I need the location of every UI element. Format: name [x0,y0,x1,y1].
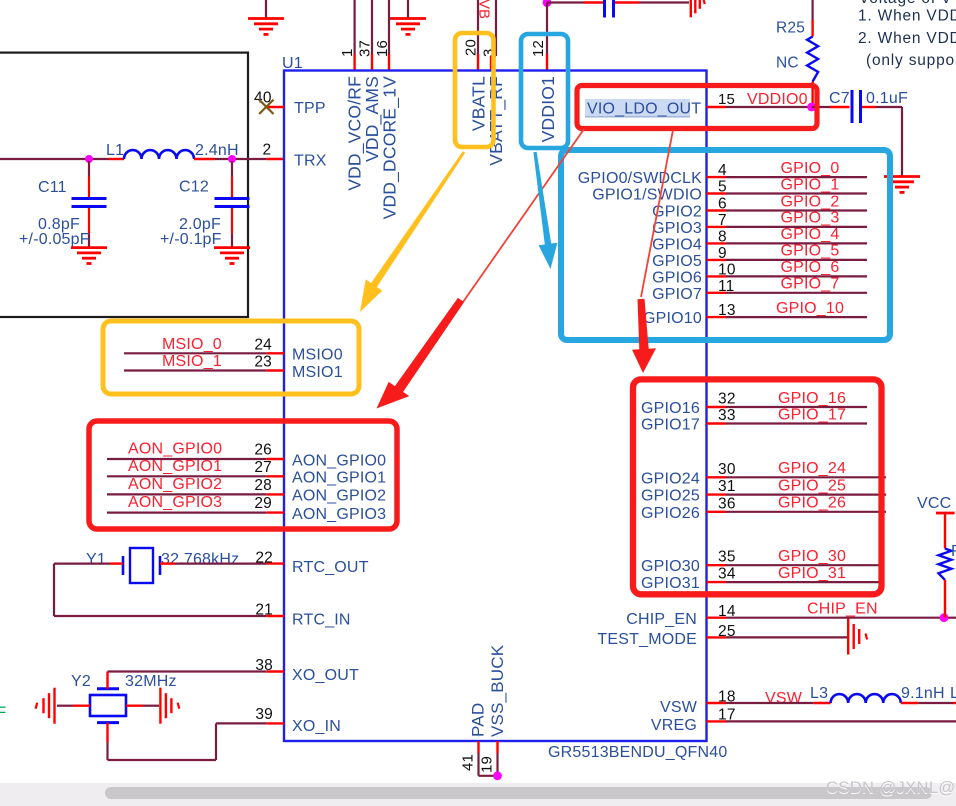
wire net MSIO_1 [124,369,284,371]
net label GPIO_25 [778,477,846,494]
wire net GPIO_6 [707,275,868,277]
pin name GPIO2 [652,204,702,221]
pin 39 number [255,706,273,723]
pin name VSS_BUCK [488,644,507,737]
net name VIO_LDO_OUT [587,101,701,118]
junction node TRX/C11 [85,155,93,163]
leader line red left [463,129,584,302]
pin name GPIO31 [641,575,700,592]
svg-text:VCC: VCC [917,495,951,512]
op-amp U1 chip body GR5513BENDU_QFN40 [284,71,707,742]
svg-text:GR5513BENDU_QFN40: GR5513BENDU_QFN40 [548,744,727,761]
ground right of TEST_MODE [848,619,867,655]
net label MSIO_0 [162,336,222,353]
svg-text:35: 35 [718,549,736,566]
svg-text:GPIO6: GPIO6 [652,269,702,286]
refdes U1 [282,55,303,72]
svg-text:MSIO_1: MSIO_1 [162,353,222,370]
net label GPIO_3 [780,210,839,227]
annotation blue box pin 12 VDDIO1 [521,34,568,148]
svg-text:GPIO_2: GPIO_2 [780,193,839,210]
part name GR5513BENDU_QFN40 [548,744,727,761]
net label AON_GPIO0 [128,441,222,458]
pin name GPIO30 [641,558,700,575]
pin 15 number [718,91,735,108]
net label GPIO_2 [780,193,839,210]
wire net MSIO_0 [124,352,284,354]
svg-text:(only supported: (only supported [866,52,956,69]
scrollbar thumb [105,787,932,799]
svg-text:9.1nH: 9.1nH [901,685,945,702]
svg-text:PAD: PAD [469,703,488,737]
pin 13 number [718,302,736,319]
pin 40 TPP [254,90,326,118]
wire R to CHIP_EN node [944,580,946,618]
note line 2 [858,30,956,47]
svg-text:AON_GPIO0: AON_GPIO0 [292,452,386,469]
net label GPIO_10 [776,300,844,317]
svg-text:GPIO_7: GPIO_7 [780,276,839,293]
pin 3 number [481,48,498,57]
svg-text:30: 30 [718,461,736,478]
svg-text:AON_GPIO1: AON_GPIO1 [128,458,222,475]
svg-text:8: 8 [718,228,727,245]
pin 25 number [718,623,736,640]
svg-text:TRX: TRX [294,153,327,170]
pin 2 TRX [263,142,327,170]
wire pin 19 stub [496,741,498,776]
svg-text:GPIO_1: GPIO_1 [780,176,839,193]
pin name GPIO10 [643,310,702,327]
label NC of R25 [776,55,799,72]
pin name VDD_AMS [362,76,383,162]
svg-text:1. When VDD supply: 1. When VDD supply [858,8,956,25]
wire net AON_GPIO0 [107,458,284,460]
wire net AON_GPIO2 [107,493,284,495]
svg-text:VIO_LDO_OUT: VIO_LDO_OUT [587,101,701,118]
svg-text:L3: L3 [810,685,828,702]
annotation red box VIO_LDO_OUT [577,86,817,129]
net label GPIO_30 [778,548,846,565]
svg-text:GPIO4: GPIO4 [652,236,702,253]
svg-text:Y1: Y1 [86,551,106,568]
svg-text:AON_GPIO3: AON_GPIO3 [292,506,386,523]
wire net GPIO_1 [707,192,868,194]
pin 22 number [255,550,273,567]
svg-text:11: 11 [718,278,735,295]
pin 12 number [530,40,547,57]
svg-text:VDDIO1: VDDIO1 [538,76,558,142]
pin 7 number [718,212,727,229]
wire to pin 16 VDD_DCORE_1V [388,0,390,71]
wire net VREG [707,720,956,722]
svg-text:TEST_MODE: TEST_MODE [597,631,697,648]
pin name MSIO0 [292,347,343,364]
pin 36 number [718,495,736,512]
svg-text:0.1uF: 0.1uF [866,90,908,107]
pin 31 number [718,478,736,495]
annotation red arrow to AON box [377,298,465,409]
pin 27 number [254,459,272,476]
pin name GPIO0/SWDCLK [578,170,702,187]
pin 4 number [718,162,727,179]
wire pin 15 to node [707,106,812,108]
pin 37 number [357,40,374,57]
junction node TRX/C12 [228,155,236,163]
leader line red right [641,130,673,297]
wire net GPIO_3 [707,226,868,228]
net label GPIO_0 [780,160,839,177]
wire net AON_GPIO1 [107,475,284,477]
svg-text:10: 10 [718,261,736,278]
wire Y2 top to pin 38 [108,672,285,689]
pin name AON_GPIO3 [292,506,386,523]
svg-text:12: 12 [530,40,547,57]
wire net GPIO_7 [707,292,868,294]
svg-text:36: 36 [718,495,736,512]
pin 34 number [718,566,736,583]
wire pin 41 stub [477,741,479,776]
svg-text:GPIO_17: GPIO_17 [778,406,846,423]
svg-text:15: 15 [718,91,735,108]
RF filter block border [0,53,248,317]
svg-text:TPP: TPP [294,100,326,117]
svg-text:AON_GPIO1: AON_GPIO1 [292,470,386,487]
value 32MHz of Y2 [125,673,177,690]
svg-text:GPIO16: GPIO16 [641,400,700,417]
svg-text:GPIO30: GPIO30 [641,558,700,575]
wire cap to ground top-right [615,1,689,3]
svg-text:GPIO26: GPIO26 [641,505,700,522]
wire junction to pin 12 VDDIO1 [546,3,548,71]
svg-text:NC: NC [776,55,799,72]
svg-text:32: 32 [718,391,736,408]
pin name RTC_IN [292,612,351,629]
svg-text:38: 38 [255,657,273,674]
pin 32 number [718,391,736,408]
svg-text:AON_GPIO0: AON_GPIO0 [128,441,222,458]
pin 10 number [718,261,736,278]
pin name GPIO4 [652,236,702,253]
svg-text:GPIO_0: GPIO_0 [780,160,839,177]
ground top-middle [390,0,426,34]
svg-text:31: 31 [718,478,736,495]
pin name GPIO3 [652,220,702,237]
wire L3 to right edge [901,702,956,704]
inductor L1 [106,142,194,159]
svg-text:28: 28 [254,477,272,494]
capacitor C11 [38,161,107,247]
pin 1 number [339,48,356,57]
svg-text:RTC_IN: RTC_IN [292,612,351,629]
svg-text:2. When VDD supply: 2. When VDD supply [858,30,956,47]
wire net GPIO_26 [707,511,887,513]
wire net GPIO_17 [707,422,868,424]
wire to pin 20 VBATL [477,0,479,71]
svg-text:GPIO10: GPIO10 [643,310,702,327]
svg-text:23: 23 [254,354,272,371]
pin name PAD [469,703,488,737]
value 0.8pF of C11 [38,216,80,233]
wire to pin 3 VBATT_RF [491,0,496,71]
pin 5 number [718,179,727,196]
wire to pin 37 VDD_AMS [371,0,373,71]
pin 29 number [254,495,272,512]
svg-text:22: 22 [255,550,273,567]
tolerance +/-0.1pF of C12 [160,231,222,248]
tolerance +/-0.05pF of C11 [19,231,90,248]
svg-text:CHIP_EN: CHIP_EN [807,601,878,618]
wire net GPIO_30 [707,564,883,566]
wire net GPIO_2 [707,209,868,211]
wire Y1 left to pin 21 [54,564,284,616]
svg-text:C7: C7 [829,90,850,107]
pin name TEST_MODE [597,631,697,648]
pin name AON_GPIO1 [292,470,386,487]
svg-text:29: 29 [254,495,272,512]
annotation yellow box MSIO [103,321,359,394]
svg-text:34: 34 [718,566,736,583]
wire net CHIP_EN [707,617,956,619]
svg-text:2: 2 [263,142,272,159]
wire Y2 right case pad [126,705,159,707]
pin 19 number [479,756,496,773]
svg-text:GPIO_24: GPIO_24 [778,460,846,477]
ground top-right rotated [691,0,705,17]
resistor R (clipped) [939,543,956,580]
pin 30 number [718,461,736,478]
net label VSW [765,690,803,707]
svg-text:GPIO25: GPIO25 [641,488,700,505]
annotation red box GPIO16 block [633,379,882,594]
resistor R25 [776,20,818,82]
net label VB (cut) [476,0,493,19]
pin name XO_IN [292,718,341,735]
pin 28 number [254,477,272,494]
svg-text:39: 39 [255,706,273,723]
pin name GPIO16 [641,400,700,417]
svg-text:VREG: VREG [651,717,697,734]
svg-text:VSW: VSW [660,699,698,716]
net label AON_GPIO2 [128,476,222,493]
capacitor C7 [829,90,861,123]
pin name VSW [660,699,698,716]
pin name MSIO1 [292,364,343,381]
svg-text:GPIO_6: GPIO_6 [780,259,839,276]
svg-text:9: 9 [718,245,727,262]
annotation blue box GPIO block [561,150,890,340]
pin name VBATL [469,76,489,131]
svg-text:R25: R25 [776,20,805,37]
pin name VBATT_RF [486,76,507,166]
svg-text:MSIO0: MSIO0 [292,347,343,364]
svg-text:32MHz: 32MHz [125,673,177,690]
watermark CSDN [826,779,956,798]
capacitor top decoupling (unlabeled) [605,0,614,18]
svg-text:21: 21 [255,602,273,619]
svg-text:GPIO_3: GPIO_3 [780,210,839,227]
pin name VDD_DCORE_1V [380,76,401,220]
net label AON_GPIO3 [128,494,222,511]
ground left of Y2 [36,688,55,724]
net label GPIO_31 [778,565,846,582]
svg-text:GPIO17: GPIO17 [641,417,700,434]
svg-text:33: 33 [718,407,736,424]
annotation red arrow to GPIO16 box [632,299,656,373]
wire to pin 1 VDD_VCO/RF [354,0,356,71]
crystal Y1 [86,548,160,583]
pin name AON_GPIO0 [292,452,386,469]
svg-text:16: 16 [374,40,391,57]
svg-text:GPIO_5: GPIO_5 [780,243,839,260]
wire junction to decoupling cap [547,1,603,3]
pin name GPIO6 [652,269,702,286]
wire R25 to VDDIO0 node [811,82,813,107]
svg-text:GPIO_4: GPIO_4 [780,226,839,243]
svg-text:GPIO_31: GPIO_31 [778,565,846,582]
highlight VIO_LDO_OUT [585,99,690,117]
svg-text:7: 7 [718,212,727,229]
svg-text:13: 13 [718,302,736,319]
pin name GPIO25 [641,488,700,505]
pin name XO_OUT [292,667,359,684]
wire net GPIO_0 [707,176,868,178]
note line 3 [866,52,956,69]
svg-text:VDDIO0: VDDIO0 [747,91,808,108]
pin 8 number [718,228,727,245]
ground below C7 [884,177,920,193]
wire net TRX from left edge [0,158,124,160]
pin name VDD_VCO/RF [345,76,366,191]
net label GPIO_1 [780,176,839,193]
pin 17 number [718,707,736,724]
svg-text:GPIO_25: GPIO_25 [778,477,846,494]
pin 16 number [374,40,391,57]
svg-text:Voltage of V: Voltage of V [859,0,952,7]
power VCC [917,495,955,549]
pin 41 number [460,754,477,771]
pin 26 number [254,442,272,459]
svg-text:GPIO5: GPIO5 [652,253,702,270]
pin 18 number [718,688,736,705]
wire Y1 right to pin 22 [160,562,284,564]
svg-text:CHIP_EN: CHIP_EN [626,611,697,628]
net label GPIO_26 [778,495,846,512]
pin name GPIO1/SWDIO [592,187,702,204]
ground top-left [248,0,284,34]
net label GPIO_4 [780,226,839,243]
scrollbar track [0,783,956,806]
value 2.4nH of L1 [195,142,239,159]
net label AON_GPIO1 [128,458,222,475]
svg-text:20: 20 [463,39,480,56]
svg-text:GPIO0/SWDCLK: GPIO0/SWDCLK [578,170,702,187]
net label GPIO_7 [780,276,839,293]
annotation red box AON_GPIO [89,421,397,529]
wire net VSW [707,702,831,704]
wire net GPIO_25 [707,493,887,495]
wire L1 to pin 2 [194,158,284,160]
ground below C12 [214,248,250,264]
svg-text:+/-0.05pF: +/-0.05pF [19,231,90,248]
annotation yellow arrow [360,151,465,312]
wire net GPIO_10 [707,316,868,318]
svg-text:AON_GPIO3: AON_GPIO3 [128,494,222,511]
svg-text:6: 6 [718,196,727,213]
net label GPIO_16 [778,390,846,407]
label L (clipped) [950,685,956,702]
junction node CHIP_EN/R [940,613,949,622]
svg-text:GPIO2: GPIO2 [652,204,702,221]
svg-text:AON_GPIO2: AON_GPIO2 [292,488,386,505]
svg-text:R: R [951,543,956,560]
svg-text:5: 5 [718,179,727,196]
svg-text:L1: L1 [106,142,124,159]
wire to resistor R25 [811,0,813,37]
inductor L3 [810,685,901,703]
svg-text:GPIO24: GPIO24 [641,470,700,487]
value 0.1uF of C7 [866,90,908,107]
ground below C11 [71,248,107,264]
annotation yellow box pins 20/3 [455,33,494,147]
pin 38 number [255,657,273,674]
pin name RTC_OUT [292,559,369,576]
svg-text:VBATT_RF: VBATT_RF [486,76,507,166]
wire net GPIO_24 [707,476,887,478]
svg-text:GPIO3: GPIO3 [652,220,702,237]
wire joining pins 41/19 [479,775,498,777]
svg-text:24: 24 [254,337,272,354]
pin 21 number [255,602,273,619]
svg-text:L: L [950,685,956,702]
svg-text:VSW: VSW [765,690,803,707]
svg-text:XO_IN: XO_IN [292,718,341,735]
junction node below pin 19 [493,771,502,780]
pin 14 number [718,603,736,620]
pin name GPIO24 [641,470,700,487]
net label GPIO_17 [778,406,846,423]
value 2.0pF of C12 [179,216,221,233]
pin name GPIO7 [652,286,702,303]
wire net GPIO_16 [707,406,868,408]
svg-text:+/-0.1pF: +/-0.1pF [160,231,222,248]
crystal Y2 [71,673,126,723]
svg-text:U1: U1 [282,55,303,72]
svg-text:41: 41 [460,754,477,771]
net label MSIO_1 [162,353,222,370]
note line 0 (clipped) [859,0,952,7]
value 9.1nH of L3 [901,685,945,702]
svg-text:C11: C11 [38,179,67,196]
svg-text:32.768kHz: 32.768kHz [161,551,239,568]
svg-text:4: 4 [718,162,727,179]
svg-text:XO_OUT: XO_OUT [292,667,359,684]
svg-text:GPIO_30: GPIO_30 [778,548,846,565]
wire net GPIO_4 [707,242,868,244]
svg-text:GPIO_26: GPIO_26 [778,495,846,512]
svg-text:RTC_OUT: RTC_OUT [292,559,369,576]
junction node VDDIO0 [807,103,816,112]
pin name GPIO17 [641,417,700,434]
pin 23 number [254,354,272,371]
svg-text:GPIO7: GPIO7 [652,286,702,303]
svg-text:GPIO_10: GPIO_10 [776,300,844,317]
net label CHIP_EN [807,601,878,618]
wire net AON_GPIO3 [107,511,284,513]
svg-text:MSIO_0: MSIO_0 [162,336,222,353]
junction node VIO_LDO_OUT top [543,0,552,7]
pin 24 number [254,337,272,354]
